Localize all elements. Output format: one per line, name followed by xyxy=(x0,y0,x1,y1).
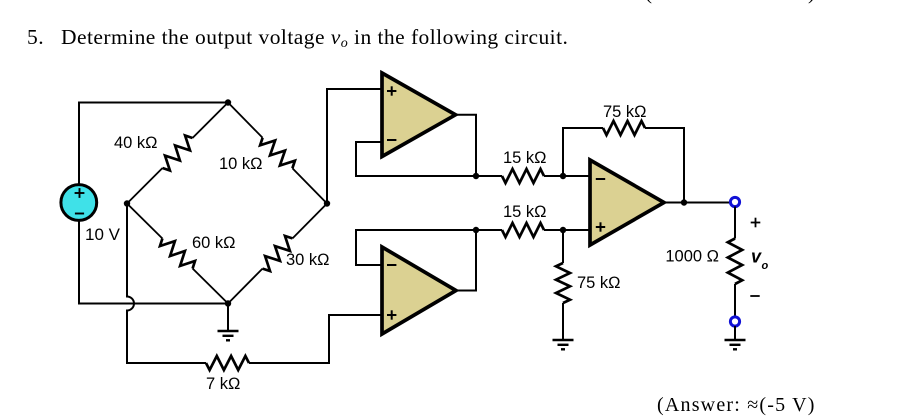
U2 feedback wire xyxy=(356,230,476,265)
U3 feedback wire right leg xyxy=(645,128,684,203)
node bridge top xyxy=(225,99,231,105)
svg-text:10 kΩ: 10 kΩ xyxy=(219,155,263,173)
resistor 30 kOhm (bridge right-bottom arm) xyxy=(228,204,327,304)
wire bottom terminal to ground xyxy=(734,326,736,340)
ground under bridge bottom node xyxy=(218,304,239,341)
output terminal top (blue) xyxy=(730,197,739,206)
ground under 75k xyxy=(553,340,574,349)
resistor 75 kOhm (to ground) xyxy=(556,263,570,303)
wire U2 junction to 15k xyxy=(476,229,502,231)
op-amp U2 (bottom) xyxy=(382,247,456,334)
svg-text:10 V: 10 V xyxy=(85,225,121,244)
U1 feedback wire (output to inverting input) xyxy=(356,142,476,176)
op-amp U1 (top) xyxy=(382,73,456,157)
svg-text:40 kΩ: 40 kΩ xyxy=(114,134,158,152)
U1 output wire xyxy=(456,115,477,176)
resistor 15 kOhm (top) xyxy=(502,169,544,183)
svg-text:vo: vo xyxy=(751,247,769,273)
title: problem statement xyxy=(27,25,568,50)
svg-text:75 kΩ: 75 kΩ xyxy=(603,103,647,121)
svg-text:15 kΩ: 15 kΩ xyxy=(503,203,547,221)
node B (15k / 75k junction) xyxy=(560,227,566,233)
voltage source VS 10 V xyxy=(61,185,97,221)
node bridge left xyxy=(124,200,130,206)
wire from bridge left node down (with hop) to 7k resistor xyxy=(127,204,206,364)
svg-text:30 kΩ: 30 kΩ xyxy=(286,251,330,269)
node bridge right xyxy=(324,200,330,206)
wire U1 junction to 15k xyxy=(476,175,502,177)
svg-text:60 kΩ: 60 kΩ xyxy=(192,234,236,252)
svg-text:7 kΩ: 7 kΩ xyxy=(206,375,240,393)
node U2 output junction xyxy=(473,227,479,233)
node U1 output junction xyxy=(473,173,479,179)
resistor 1000 Ohm xyxy=(728,239,742,285)
resistor 7 kOhm xyxy=(206,356,249,370)
op-amp U3 (right) xyxy=(590,160,664,245)
wire terminal to 1000 ohm xyxy=(734,207,736,239)
wire bridge right node to U1 + input xyxy=(327,89,381,204)
U3 feedback wire left leg xyxy=(563,128,603,176)
resistor 60 kOhm (bridge left-bottom arm) xyxy=(127,204,228,304)
output terminal bottom (blue) xyxy=(730,317,739,326)
resistor 15 kOhm (bottom) xyxy=(502,223,544,237)
ground under output xyxy=(725,340,746,349)
label + output polarity xyxy=(751,222,761,224)
wire from 7k up to op-amp U2 + input xyxy=(249,315,381,363)
svg-text:75 kΩ: 75 kΩ xyxy=(577,274,621,292)
partial paren from previous line (left) xyxy=(645,0,652,5)
svg-text:1000 Ω: 1000 Ω xyxy=(665,248,719,266)
wire node B down to 75k xyxy=(562,230,564,263)
resistor 75 kOhm (feedback) xyxy=(603,121,645,135)
node bridge bottom xyxy=(225,300,231,306)
svg-text:15 kΩ: 15 kΩ xyxy=(503,149,547,167)
wire 1000 ohm to bottom terminal xyxy=(734,284,736,317)
U3 output wire to terminal xyxy=(664,202,735,204)
wire from source bottom to bridge bottom node xyxy=(79,221,228,304)
partial paren from previous line (right) xyxy=(808,0,815,5)
wire 15k to U3 inverting input xyxy=(544,175,590,177)
node A (15k / feedback junction) xyxy=(560,173,566,179)
U2 output wire xyxy=(456,230,476,291)
partial answer text clipped at bottom xyxy=(657,394,816,417)
node U3 output junction xyxy=(681,199,687,205)
resistor 10 kOhm (bridge top-right arm) xyxy=(228,103,327,204)
resistor 40 kOhm (bridge left-top arm) xyxy=(127,103,228,204)
wire 75k to ground xyxy=(562,303,564,340)
wire 15k to U3 non-inverting input xyxy=(544,229,590,231)
label - output polarity xyxy=(750,295,759,297)
wire from source top to bridge top node xyxy=(79,103,228,185)
